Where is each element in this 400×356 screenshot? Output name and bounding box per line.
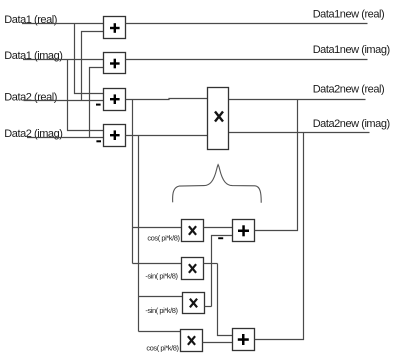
wire multiplier M output to Data2new (real)	[229, 99, 366, 101]
brace expanding multiplier M	[173, 165, 262, 203]
adder S2	[233, 329, 255, 351]
wire tap U4 output down left feed column B	[138, 136, 140, 332]
wire U2 output to Data1new (imag)	[126, 59, 368, 61]
wire tap Data2 (real) up to adder U1 lower input	[82, 32, 105, 101]
svg-text:Data1new (imag): Data1new (imag)	[313, 44, 390, 56]
svg-text:Data1new (real): Data1new (real)	[313, 9, 385, 21]
adder U2	[104, 53, 126, 74]
svg-text:Data2 (imag): Data2 (imag)	[4, 128, 62, 140]
wire Data2 (real) input	[24, 100, 105, 102]
minus sign at U3 lower input	[96, 104, 101, 106]
wire S2 output up to Data2new (imag)	[255, 133, 304, 340]
wire Data2 (imag) input	[27, 137, 104, 139]
adder U4	[104, 125, 126, 147]
svg-text:Data1 (imag): Data1 (imag)	[4, 50, 62, 62]
wire middle column to adder S2 upper input	[218, 264, 233, 336]
wire U4 output to multiplier M	[126, 135, 208, 137]
wire tap Data1 (real) down to adder U3 upper input	[75, 24, 105, 94]
multiplier M3	[183, 293, 205, 314]
wire multiplier M output to Data2new (imag)	[229, 132, 370, 134]
wire M4 output to adder S2	[203, 342, 233, 344]
wire middle column to adder S1 lower input	[212, 236, 233, 307]
wire tap Data1 (imag) down to adder U4 upper input	[68, 60, 105, 131]
wire Data1 (real) input	[22, 23, 104, 25]
svg-text:Data2new (real): Data2new (real)	[313, 83, 385, 95]
adder S1	[233, 220, 255, 242]
wire U1 output to Data1new (real)	[126, 23, 368, 25]
multiplier M4	[181, 330, 203, 352]
svg-text:cos( pi*k/8): cos( pi*k/8)	[147, 233, 180, 242]
svg-text:cos( pi*k/8): cos( pi*k/8)	[146, 343, 179, 352]
wire column A to multiplier M2 input	[133, 263, 182, 265]
wire M3 output	[205, 306, 212, 308]
multiplier M (complex twiddle multiply)	[208, 88, 229, 150]
wire U3 output to multiplier M	[126, 99, 208, 100]
multiplier M1	[182, 220, 204, 242]
wire M1 output to adder S1	[204, 227, 233, 229]
minus sign at S1 lower input	[218, 237, 223, 239]
wire Data1 (imag) input	[23, 59, 104, 61]
svg-text:Data2new (imag): Data2new (imag)	[313, 118, 390, 130]
wire column A to multiplier M1 input	[133, 227, 182, 229]
wire S1 output up to Data2new (real)	[255, 100, 298, 231]
adder U1	[104, 17, 126, 39]
minus sign at U4 lower input	[96, 140, 101, 142]
wire column B to multiplier M3 input	[139, 296, 183, 298]
adder U3	[104, 89, 126, 111]
wire M2 output	[204, 263, 218, 265]
multiplier M2	[182, 258, 204, 280]
wire column B to multiplier M4 input	[139, 331, 181, 333]
svg-text:-sin( pi*k/8): -sin( pi*k/8)	[145, 306, 178, 315]
svg-text:-sin( pi*k/8): -sin( pi*k/8)	[145, 271, 178, 280]
svg-text:Data1 (real): Data1 (real)	[4, 14, 57, 26]
wire tap U3 output down left feed column A	[132, 100, 134, 264]
svg-text:Data2 (real): Data2 (real)	[4, 92, 57, 104]
wire tap Data2 (imag) up to adder U2 lower input	[90, 68, 105, 138]
